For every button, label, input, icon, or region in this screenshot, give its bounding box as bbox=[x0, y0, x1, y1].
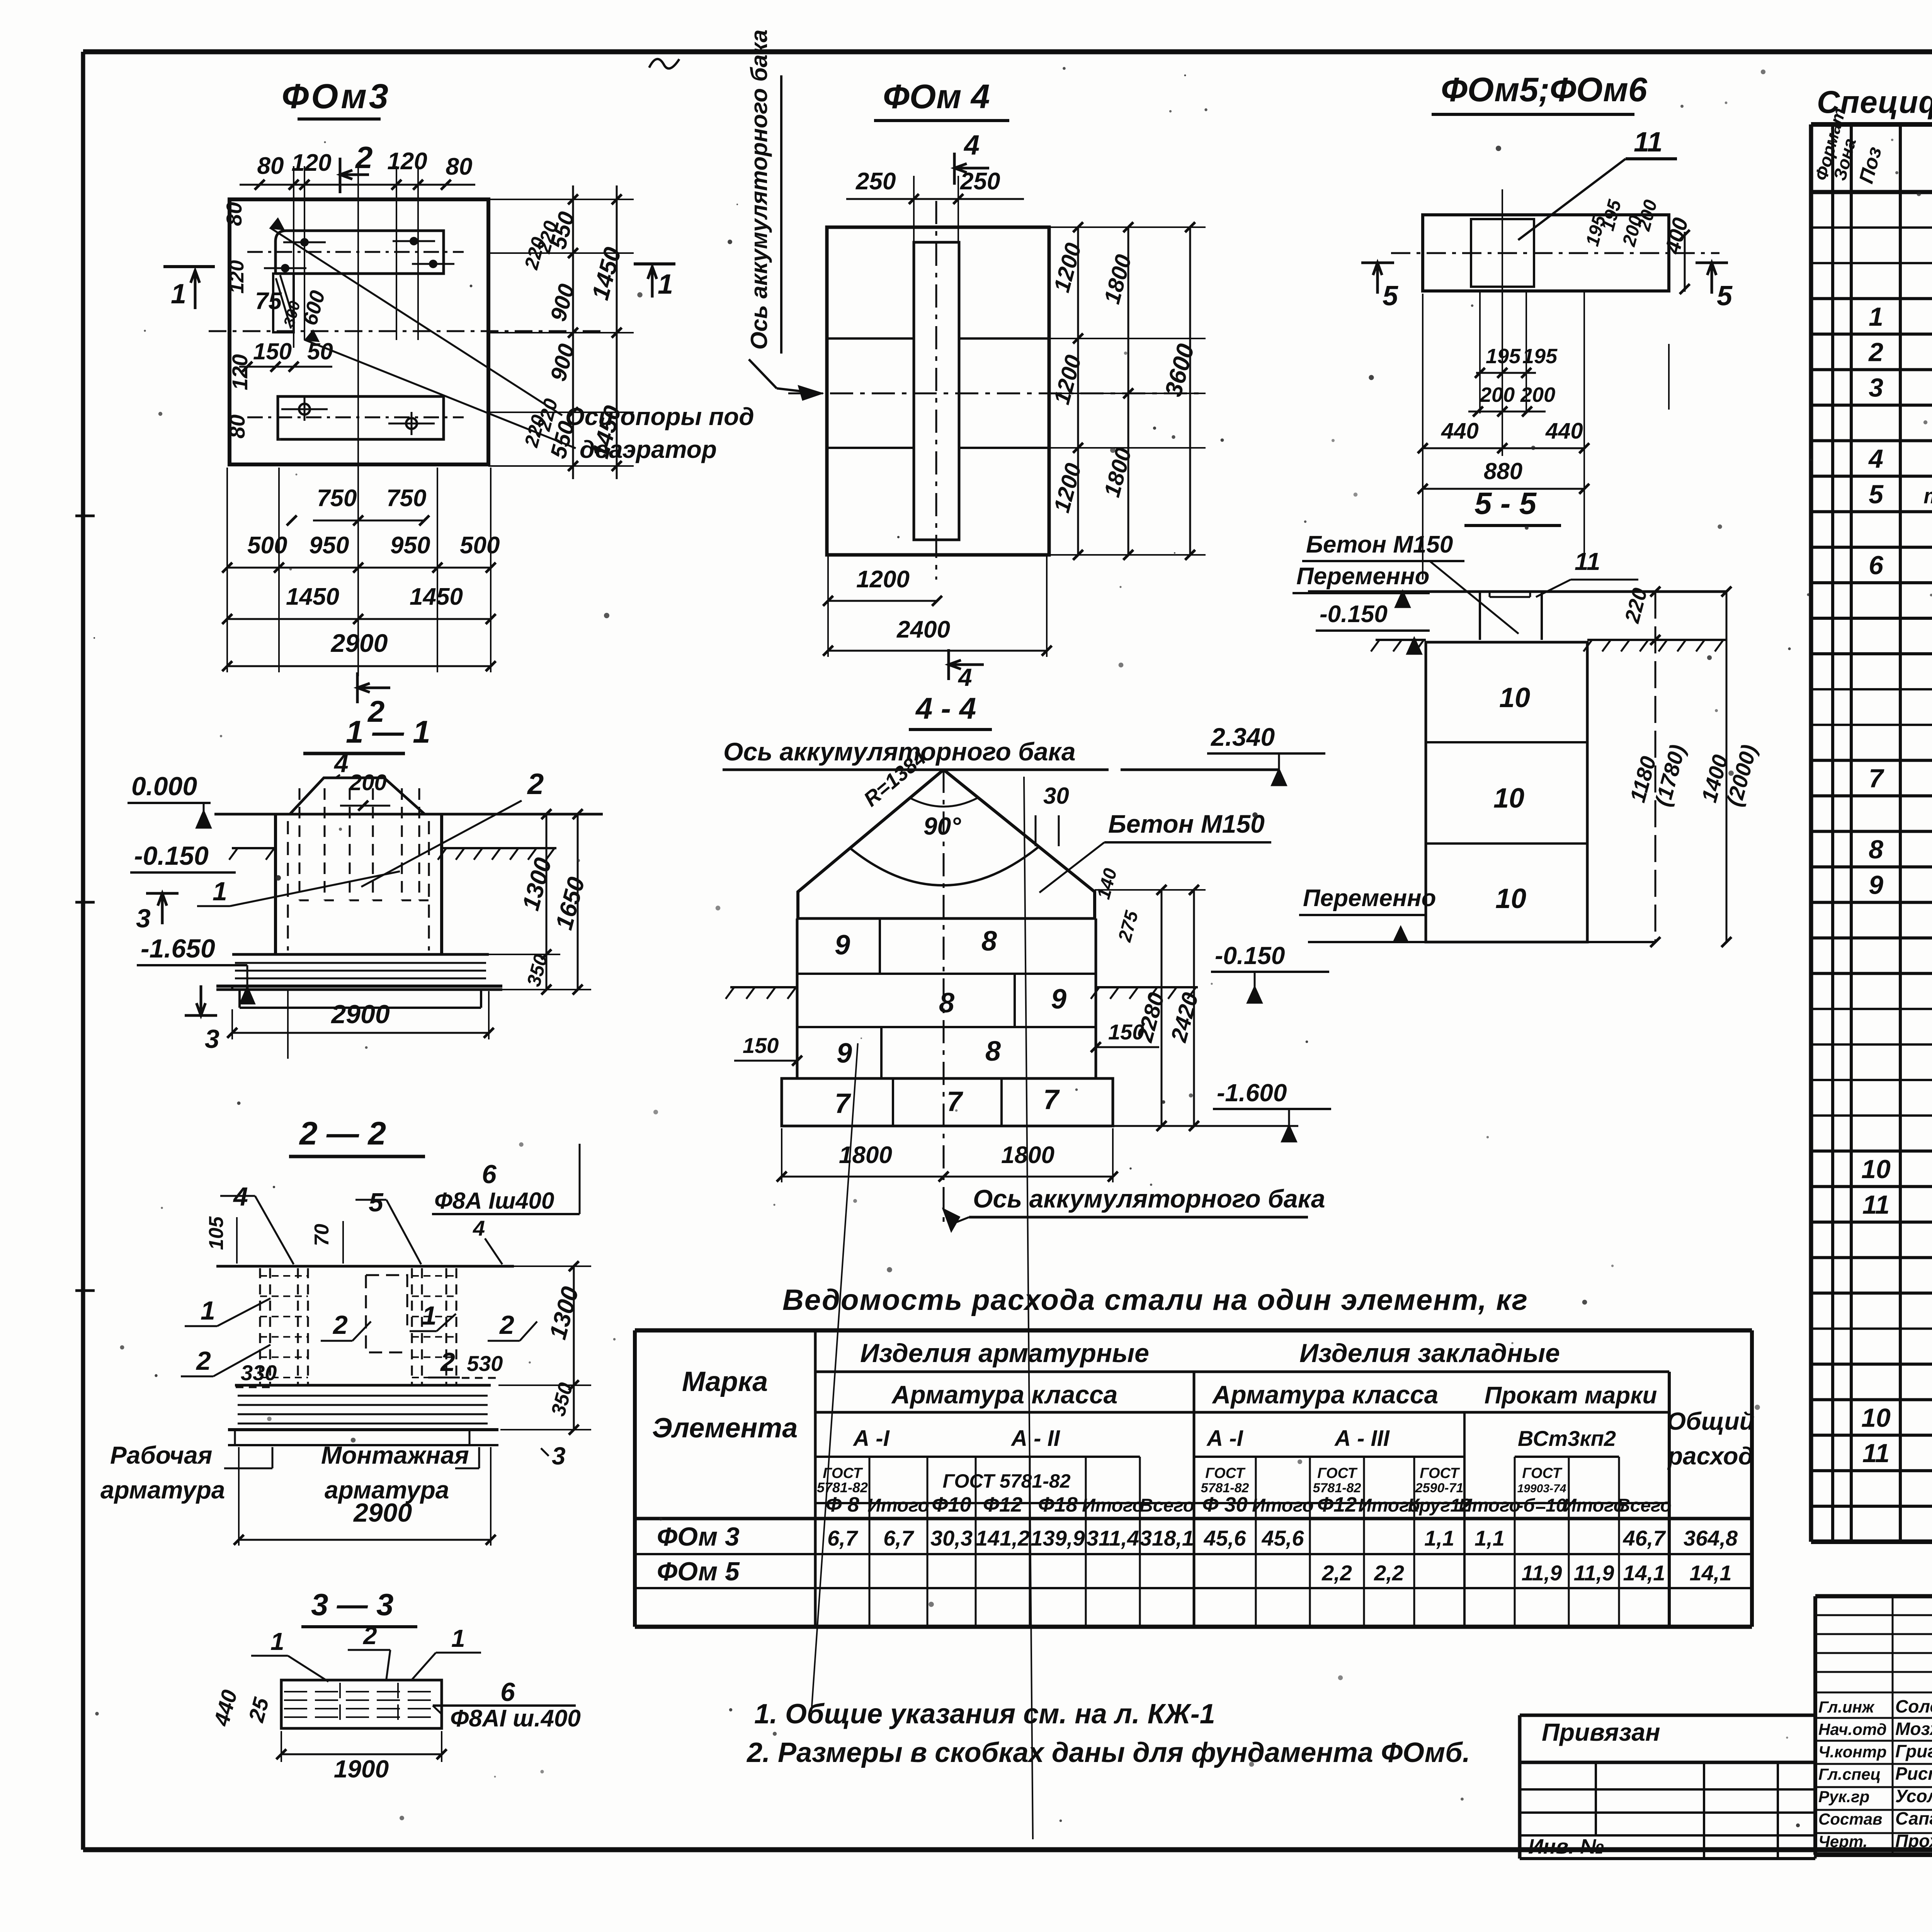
svg-text:Итого: Итого bbox=[1082, 1495, 1144, 1516]
svg-text:14,1: 14,1 bbox=[1690, 1561, 1732, 1585]
svg-text:1900: 1900 bbox=[334, 1755, 389, 1783]
svg-text:Ось аккумуляторного бака: Ось аккумуляторного бака bbox=[746, 29, 772, 350]
svg-text:10: 10 bbox=[1495, 883, 1526, 914]
svg-text:120: 120 bbox=[291, 150, 331, 176]
svg-text:Прокат марки: Прокат марки bbox=[1485, 1382, 1657, 1409]
svg-text:150: 150 bbox=[253, 338, 292, 364]
svg-text:11: 11 bbox=[1862, 1439, 1890, 1468]
svg-text:2900: 2900 bbox=[330, 1000, 389, 1029]
svg-text:Усольцев: Усольцев bbox=[1895, 1786, 1932, 1806]
svg-text:Ф12: Ф12 bbox=[1317, 1493, 1357, 1516]
svg-text:А -I: А -I bbox=[852, 1426, 890, 1451]
svg-text:4: 4 bbox=[333, 749, 349, 777]
svg-text:5: 5 bbox=[1869, 480, 1884, 509]
svg-text:1,1: 1,1 bbox=[1475, 1526, 1505, 1550]
svg-text:4: 4 bbox=[473, 1216, 485, 1240]
svg-text:Изделия арматурные: Изделия арматурные bbox=[860, 1338, 1149, 1368]
svg-text:1450: 1450 bbox=[286, 583, 339, 610]
svg-text:Гл.инж: Гл.инж bbox=[1818, 1698, 1875, 1716]
svg-text:Арматура класса: Арматура класса bbox=[891, 1380, 1118, 1409]
svg-text:7: 7 bbox=[1043, 1084, 1060, 1115]
svg-text:120: 120 bbox=[226, 260, 248, 294]
svg-text:3 — 3: 3 — 3 bbox=[311, 1587, 393, 1622]
svg-text:250: 250 bbox=[960, 168, 1000, 195]
svg-text:арматура: арматура bbox=[100, 1476, 225, 1504]
svg-text:Черт.: Черт. bbox=[1818, 1832, 1867, 1850]
svg-text:2: 2 bbox=[1868, 338, 1883, 367]
svg-text:105: 105 bbox=[205, 1216, 228, 1250]
svg-text:5 - 5: 5 - 5 bbox=[1475, 486, 1537, 520]
svg-text:30,3: 30,3 bbox=[930, 1526, 973, 1550]
svg-text:11,9: 11,9 bbox=[1574, 1561, 1614, 1585]
svg-text:80: 80 bbox=[222, 202, 246, 226]
svg-text:9: 9 bbox=[835, 930, 850, 961]
svg-text:-б=10: -б=10 bbox=[1517, 1495, 1566, 1516]
svg-text:Состав: Состав bbox=[1818, 1810, 1882, 1828]
svg-text:6,7: 6,7 bbox=[827, 1526, 859, 1550]
svg-text:0.000: 0.000 bbox=[131, 772, 197, 801]
svg-text:2.340: 2.340 bbox=[1210, 723, 1275, 751]
svg-text:4: 4 bbox=[957, 663, 972, 691]
svg-text:Рабочая: Рабочая bbox=[110, 1441, 212, 1469]
svg-text:А -I: А -I bbox=[1206, 1426, 1243, 1451]
svg-text:Монтажная: Монтажная bbox=[321, 1441, 469, 1469]
svg-text:1200: 1200 bbox=[856, 566, 910, 593]
svg-text:Ведомость расхода стали на: Ведомость расхода стали на один элемент,… bbox=[782, 1284, 1528, 1316]
svg-text:19903-74: 19903-74 bbox=[1517, 1482, 1566, 1495]
svg-text:1: 1 bbox=[658, 269, 673, 300]
svg-text:200: 200 bbox=[349, 770, 387, 795]
svg-text:7: 7 bbox=[1869, 764, 1884, 793]
svg-text:1,1: 1,1 bbox=[1424, 1526, 1454, 1550]
svg-text:Итого: Итого bbox=[1459, 1495, 1520, 1516]
svg-text:А - II: А - II bbox=[1010, 1426, 1061, 1451]
svg-text:45,6: 45,6 bbox=[1262, 1526, 1304, 1550]
svg-text:9: 9 bbox=[837, 1038, 852, 1069]
svg-text:141,2: 141,2 bbox=[976, 1526, 1030, 1550]
svg-text:Ристав: Ристав bbox=[1895, 1764, 1932, 1784]
svg-text:Переменно: Переменно bbox=[1303, 885, 1436, 912]
svg-text:1: 1 bbox=[270, 1628, 284, 1655]
svg-text:Гл.спец: Гл.спец bbox=[1818, 1765, 1881, 1783]
svg-text:2. Размеры в скобках даны: 2. Размеры в скобках даны для фундамента… bbox=[746, 1737, 1470, 1768]
svg-text:Нач.отд: Нач.отд bbox=[1818, 1720, 1887, 1738]
svg-text:Арматура класса: Арматура класса bbox=[1212, 1380, 1439, 1409]
svg-text:2400: 2400 bbox=[896, 616, 950, 643]
svg-text:11: 11 bbox=[1575, 548, 1600, 575]
svg-text:расход: расход bbox=[1667, 1442, 1753, 1470]
svg-text:Общий: Общий bbox=[1667, 1407, 1754, 1435]
svg-text:150: 150 bbox=[743, 1033, 779, 1058]
svg-text:Бетон М150: Бетон М150 bbox=[1108, 810, 1265, 838]
svg-text:30: 30 bbox=[1043, 783, 1069, 809]
svg-text:6,7: 6,7 bbox=[883, 1526, 915, 1550]
svg-text:2 — 2: 2 — 2 bbox=[299, 1115, 386, 1151]
svg-text:440: 440 bbox=[1441, 418, 1479, 444]
svg-text:Инв. №: Инв. № bbox=[1528, 1835, 1604, 1858]
svg-text:1: 1 bbox=[213, 877, 227, 906]
svg-text:ГОСТ: ГОСТ bbox=[1317, 1465, 1357, 1481]
svg-text:5: 5 bbox=[369, 1188, 384, 1217]
svg-text:ГОСТ: ГОСТ bbox=[1420, 1465, 1460, 1481]
svg-text:1: 1 bbox=[451, 1624, 465, 1652]
svg-text:-1.600: -1.600 bbox=[1217, 1079, 1287, 1107]
svg-text:10: 10 bbox=[1493, 783, 1524, 814]
svg-text:2590-71: 2590-71 bbox=[1415, 1481, 1464, 1495]
svg-text:880: 880 bbox=[1484, 458, 1522, 484]
svg-text:ВСт3кп2: ВСт3кп2 bbox=[1518, 1426, 1616, 1451]
svg-text:Ф 30: Ф 30 bbox=[1202, 1493, 1247, 1516]
svg-text:2: 2 bbox=[355, 140, 373, 175]
svg-text:Соловьев: Соловьев bbox=[1895, 1696, 1932, 1716]
svg-text:Марка: Марка bbox=[682, 1366, 768, 1397]
svg-text:-0.150: -0.150 bbox=[1320, 601, 1388, 628]
svg-text:4: 4 bbox=[1868, 444, 1883, 473]
svg-text:2: 2 bbox=[440, 1347, 455, 1377]
svg-text:530: 530 bbox=[467, 1351, 503, 1376]
svg-text:1450: 1450 bbox=[410, 583, 463, 610]
svg-text:Всего: Всего bbox=[1617, 1495, 1672, 1516]
svg-text:950: 950 bbox=[390, 532, 430, 559]
svg-text:6: 6 bbox=[1869, 551, 1884, 580]
svg-text:ФОм5;ФОм6: ФОм5;ФОм6 bbox=[1441, 70, 1648, 109]
svg-text:6: 6 bbox=[500, 1677, 515, 1707]
svg-text:Бетон М150: Бетон М150 bbox=[1306, 531, 1453, 558]
svg-text:ГОСТ: ГОСТ bbox=[1205, 1465, 1245, 1481]
svg-text:200: 200 bbox=[1480, 383, 1515, 406]
svg-text:750: 750 bbox=[317, 485, 357, 512]
svg-text:3: 3 bbox=[205, 1024, 219, 1054]
svg-text:Ф18: Ф18 bbox=[1038, 1493, 1077, 1516]
svg-text:1: 1 bbox=[171, 279, 186, 310]
svg-text:ФОм 4: ФОм 4 bbox=[883, 77, 990, 116]
svg-text:4 - 4: 4 - 4 bbox=[915, 691, 976, 725]
svg-text:3: 3 bbox=[552, 1442, 566, 1470]
svg-text:Изделия закладные: Изделия закладные bbox=[1299, 1338, 1560, 1368]
svg-text:10: 10 bbox=[1861, 1403, 1891, 1432]
svg-text:Итого: Итого bbox=[1252, 1495, 1314, 1516]
svg-text:1 — 1: 1 — 1 bbox=[346, 714, 430, 750]
svg-text:120: 120 bbox=[387, 148, 427, 175]
svg-text:ФОм 5: ФОм 5 bbox=[657, 1557, 740, 1586]
svg-text:70: 70 bbox=[311, 1224, 333, 1246]
svg-text:Итого: Итого bbox=[1563, 1495, 1625, 1516]
svg-text:46,7: 46,7 bbox=[1623, 1526, 1667, 1550]
svg-text:5: 5 bbox=[1383, 281, 1398, 311]
svg-text:10: 10 bbox=[1861, 1155, 1891, 1184]
svg-text:ФОм 3: ФОм 3 bbox=[657, 1522, 740, 1551]
svg-text:195: 195 bbox=[1522, 345, 1558, 368]
svg-text:75: 75 bbox=[255, 288, 282, 315]
svg-text:9: 9 bbox=[1869, 871, 1883, 900]
svg-text:8: 8 bbox=[939, 988, 954, 1019]
svg-text:Рук.гр: Рук.гр bbox=[1818, 1787, 1869, 1806]
svg-text:10: 10 bbox=[1499, 682, 1530, 713]
svg-text:Ф10: Ф10 bbox=[932, 1493, 971, 1516]
svg-text:2: 2 bbox=[363, 1622, 377, 1650]
svg-text:14,1: 14,1 bbox=[1623, 1561, 1665, 1585]
svg-text:1800: 1800 bbox=[839, 1142, 892, 1168]
svg-text:ГОСТ: ГОСТ bbox=[1522, 1465, 1562, 1481]
svg-text:8: 8 bbox=[1869, 835, 1883, 864]
svg-text:Привязан: Привязан bbox=[1542, 1718, 1660, 1746]
svg-text:А - III: А - III bbox=[1334, 1426, 1390, 1451]
svg-text:Мозжухов: Мозжухов bbox=[1895, 1719, 1932, 1739]
svg-text:деаэратор: деаэратор bbox=[580, 435, 717, 463]
svg-text:8: 8 bbox=[985, 1036, 1001, 1067]
svg-text:-0.150: -0.150 bbox=[1215, 942, 1285, 969]
svg-text:1: 1 bbox=[1869, 302, 1883, 332]
svg-text:200: 200 bbox=[1520, 383, 1555, 406]
svg-text:Оси опоры под: Оси опоры под bbox=[565, 403, 754, 430]
svg-text:8: 8 bbox=[981, 926, 997, 957]
svg-text:2: 2 bbox=[527, 768, 544, 801]
svg-text:1. Общие указания см. на л: 1. Общие указания см. на л. КЖ-1 bbox=[754, 1699, 1215, 1730]
svg-text:80: 80 bbox=[225, 415, 249, 439]
svg-text:440: 440 bbox=[1545, 418, 1583, 444]
svg-text:Ось аккумуляторного бака: Ось аккумуляторного бака bbox=[973, 1184, 1325, 1213]
svg-text:80: 80 bbox=[257, 153, 284, 179]
svg-text:1: 1 bbox=[201, 1296, 215, 1325]
svg-text:311,4: 311,4 bbox=[1087, 1526, 1139, 1550]
svg-text:500: 500 bbox=[247, 532, 287, 559]
svg-text:3: 3 bbox=[1869, 373, 1883, 403]
svg-text:950: 950 bbox=[309, 532, 349, 559]
svg-text:Прохорова: Прохорова bbox=[1895, 1831, 1932, 1851]
svg-text:Сапгина: Сапгина bbox=[1895, 1808, 1932, 1828]
svg-text:9: 9 bbox=[1051, 984, 1066, 1015]
svg-text:11: 11 bbox=[1862, 1190, 1890, 1219]
svg-text:2900: 2900 bbox=[330, 629, 388, 657]
svg-text:7: 7 bbox=[835, 1088, 851, 1119]
svg-text:318,1: 318,1 bbox=[1140, 1526, 1194, 1550]
svg-text:45,6: 45,6 bbox=[1204, 1526, 1247, 1550]
svg-text:Элемента: Элемента bbox=[652, 1413, 798, 1444]
svg-text:250: 250 bbox=[855, 168, 896, 195]
svg-text:5: 5 bbox=[1717, 281, 1733, 311]
svg-text:ГОСТ 5781-82: ГОСТ 5781-82 bbox=[942, 1470, 1070, 1492]
svg-text:Ф 8: Ф 8 bbox=[825, 1493, 859, 1516]
svg-text:Ф8АI ш.400: Ф8АI ш.400 bbox=[450, 1705, 581, 1732]
svg-text:3: 3 bbox=[136, 904, 151, 933]
svg-text:2: 2 bbox=[196, 1346, 211, 1376]
svg-text:7: 7 bbox=[947, 1086, 963, 1117]
svg-text:-0.150: -0.150 bbox=[134, 841, 209, 871]
svg-text:11: 11 bbox=[1634, 127, 1663, 158]
svg-text:330: 330 bbox=[241, 1361, 277, 1385]
svg-text:Переменно: Переменно bbox=[1296, 563, 1430, 590]
svg-text:Григоров: Григоров bbox=[1895, 1741, 1932, 1761]
svg-text:6: 6 bbox=[482, 1160, 497, 1189]
svg-text:Всего: Всего bbox=[1139, 1495, 1194, 1516]
svg-text:Ф12: Ф12 bbox=[983, 1493, 1022, 1516]
svg-text:2,2: 2,2 bbox=[1374, 1561, 1404, 1585]
svg-text:11,9: 11,9 bbox=[1522, 1561, 1562, 1585]
svg-text:2900: 2900 bbox=[353, 1498, 412, 1527]
svg-text:364,8: 364,8 bbox=[1684, 1526, 1738, 1550]
svg-text:ФОм3: ФОм3 bbox=[282, 77, 391, 116]
svg-text:2: 2 bbox=[499, 1310, 514, 1340]
svg-text:139,9: 139,9 bbox=[1031, 1526, 1085, 1550]
svg-text:1: 1 bbox=[422, 1301, 437, 1330]
svg-text:500: 500 bbox=[460, 532, 500, 559]
svg-text:4: 4 bbox=[963, 130, 980, 161]
svg-text:750: 750 bbox=[386, 485, 426, 512]
svg-text:90°: 90° bbox=[923, 812, 961, 840]
svg-text:80: 80 bbox=[446, 153, 473, 180]
svg-text:150: 150 bbox=[1108, 1020, 1144, 1044]
svg-text:195: 195 bbox=[1486, 345, 1521, 368]
svg-text:2,2: 2,2 bbox=[1321, 1561, 1352, 1585]
svg-text:Ч.контр: Ч.контр bbox=[1818, 1743, 1887, 1761]
svg-text:Итого: Итого bbox=[867, 1495, 929, 1516]
svg-text:тп903-1-21284-КЖИ-МН2: тп903-1-21284-КЖИ-МН2 bbox=[1923, 483, 1932, 508]
svg-text:2: 2 bbox=[332, 1310, 348, 1340]
svg-text:Ф8А Iш400: Ф8А Iш400 bbox=[434, 1188, 554, 1214]
svg-text:-1.650: -1.650 bbox=[141, 934, 215, 963]
svg-text:120: 120 bbox=[228, 354, 252, 390]
